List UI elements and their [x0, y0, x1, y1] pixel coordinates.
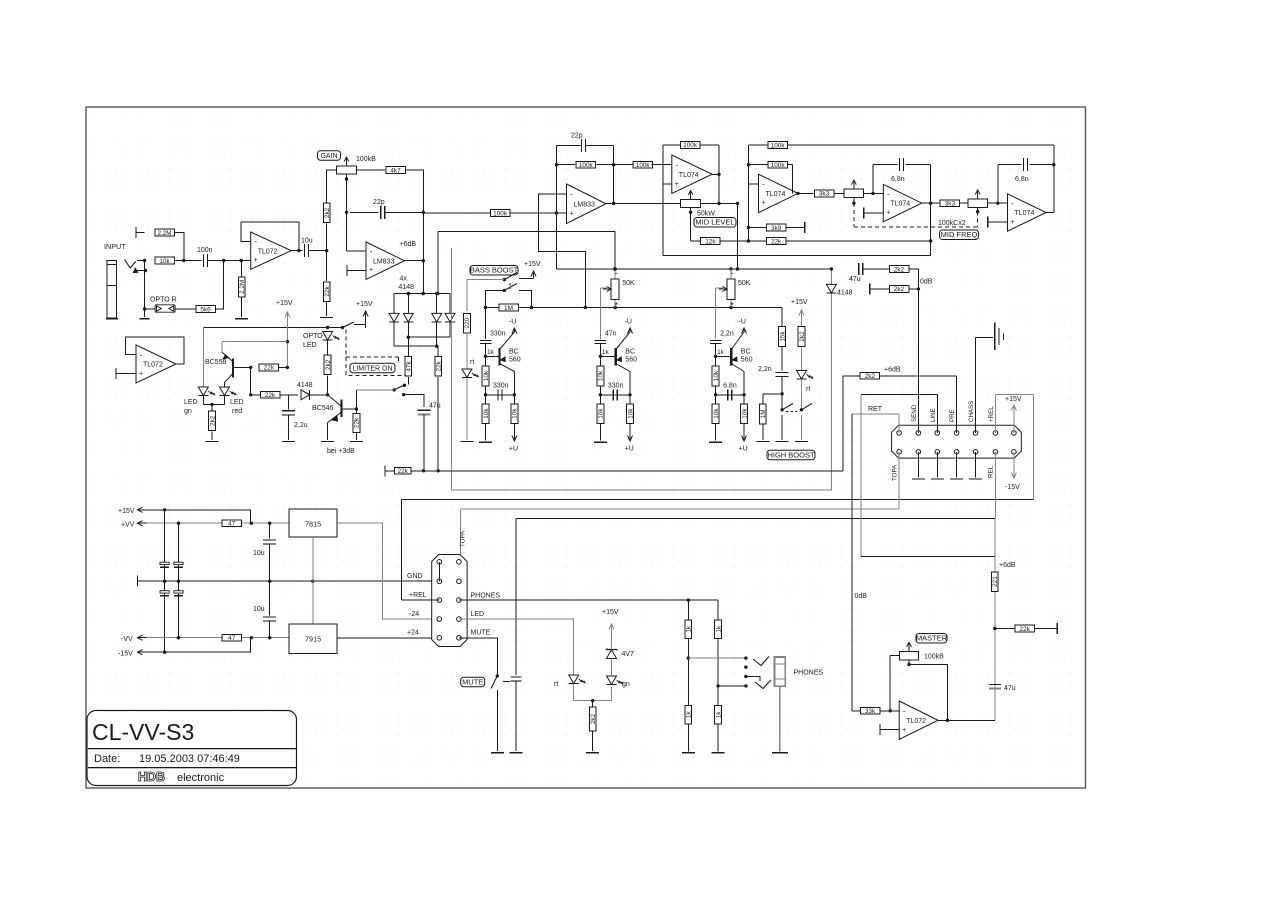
svg-text:REL: REL	[987, 465, 994, 478]
svg-text:2k2: 2k2	[894, 266, 905, 273]
svg-text:4148: 4148	[837, 290, 853, 297]
svg-text:MID FREQ: MID FREQ	[941, 230, 978, 239]
svg-text:PRE: PRE	[949, 409, 956, 422]
svg-text:1k: 1k	[715, 711, 722, 719]
svg-text:+U: +U	[625, 446, 634, 453]
svg-text:10u: 10u	[253, 606, 265, 613]
svg-text:47: 47	[228, 635, 236, 642]
svg-text:10k: 10k	[512, 408, 519, 419]
svg-text:+: +	[675, 181, 679, 188]
svg-text:-: -	[762, 180, 765, 189]
svg-text:2k2: 2k2	[324, 207, 331, 218]
svg-text:6,8n: 6,8n	[723, 382, 737, 389]
svg-text:22k: 22k	[354, 417, 361, 428]
svg-text:330n: 330n	[493, 382, 509, 389]
svg-text:47: 47	[228, 521, 236, 528]
svg-text:4V7: 4V7	[622, 651, 635, 658]
svg-text:+REL: +REL	[409, 592, 427, 599]
svg-text:4x: 4x	[400, 276, 408, 283]
svg-text:330n: 330n	[490, 331, 506, 338]
svg-text:+REL: +REL	[988, 406, 995, 422]
svg-text:47n: 47n	[605, 331, 617, 338]
svg-text:bei +3dB: bei +3dB	[327, 448, 355, 455]
svg-text:BC558: BC558	[205, 359, 227, 366]
svg-text:-: -	[675, 160, 678, 169]
svg-text:+15V: +15V	[791, 299, 808, 306]
svg-text:TOPA: TOPA	[891, 464, 898, 481]
svg-text:10k: 10k	[713, 408, 720, 419]
svg-text:MUTE: MUTE	[471, 630, 491, 637]
svg-text:22k: 22k	[398, 468, 409, 475]
svg-text:-: -	[140, 350, 143, 359]
svg-text:+15V: +15V	[118, 508, 135, 515]
svg-text:BC: BC	[509, 349, 519, 356]
svg-text:*: *	[730, 301, 734, 311]
svg-text:1k: 1k	[686, 711, 693, 719]
svg-text:10k: 10k	[483, 408, 490, 419]
svg-text:560: 560	[741, 357, 753, 364]
svg-text:OPTO R: OPTO R	[150, 297, 177, 304]
svg-text:red: red	[232, 408, 242, 415]
svg-text:+15V: +15V	[356, 301, 373, 308]
svg-text:50K: 50K	[622, 280, 635, 287]
svg-text:-15V: -15V	[1005, 484, 1020, 491]
svg-text:BC: BC	[741, 349, 751, 356]
svg-text:MUTE: MUTE	[462, 677, 483, 686]
svg-text:10k: 10k	[159, 258, 170, 265]
svg-text:0dB: 0dB	[855, 593, 868, 600]
svg-text:TL072: TL072	[906, 718, 926, 725]
svg-text:GND: GND	[407, 573, 423, 580]
svg-text:TL074: TL074	[679, 172, 699, 179]
svg-text:2,2M: 2,2M	[239, 280, 246, 294]
svg-text:gn: gn	[622, 681, 630, 688]
svg-text:7815: 7815	[305, 520, 321, 529]
svg-text:5k6: 5k6	[200, 306, 211, 313]
svg-text:1k: 1k	[602, 349, 610, 356]
svg-text:LM833: LM833	[373, 258, 395, 265]
svg-text:4148: 4148	[399, 284, 415, 291]
svg-text:221: 221	[992, 576, 999, 587]
svg-text:2k2: 2k2	[799, 331, 806, 342]
svg-text:TL074: TL074	[766, 191, 786, 198]
svg-text:+: +	[254, 257, 258, 264]
svg-text:100kB: 100kB	[924, 654, 944, 661]
svg-text:33k: 33k	[865, 708, 876, 715]
svg-text:LED: LED	[184, 399, 198, 406]
svg-text:HIGH BOOST: HIGH BOOST	[767, 450, 815, 459]
svg-text:22k: 22k	[324, 286, 331, 297]
svg-text:-24: -24	[409, 611, 419, 618]
svg-text:+6dB: +6dB	[999, 562, 1016, 569]
svg-text:+: +	[902, 727, 906, 734]
svg-text:HDB: HDB	[138, 770, 165, 784]
svg-text:10k: 10k	[741, 408, 748, 419]
svg-text:BASS BOOST: BASS BOOST	[470, 266, 519, 275]
svg-text:1k: 1k	[717, 349, 725, 356]
svg-text:100k: 100k	[636, 162, 651, 169]
svg-text:+24: +24	[407, 630, 419, 637]
svg-text:4148: 4148	[297, 382, 313, 389]
svg-text:OPTO: OPTO	[303, 333, 323, 340]
svg-text:+15V: +15V	[524, 261, 541, 268]
svg-text:CL-VV-S3: CL-VV-S3	[92, 719, 194, 745]
svg-text:GAIN: GAIN	[320, 153, 337, 160]
svg-text:4k7: 4k7	[390, 167, 401, 174]
svg-text:+: +	[886, 209, 890, 216]
svg-text:2k2: 2k2	[590, 713, 597, 724]
svg-text:-: -	[254, 237, 257, 246]
svg-text:10u: 10u	[253, 550, 265, 557]
svg-text:2.2M: 2.2M	[157, 230, 171, 237]
svg-text:100k: 100k	[771, 162, 786, 169]
svg-text:MID LEVEL: MID LEVEL	[695, 218, 734, 227]
svg-text:6,8n: 6,8n	[891, 176, 905, 183]
svg-text:22k: 22k	[264, 365, 275, 372]
svg-text:19.05.2003 07:46:49: 19.05.2003 07:46:49	[139, 753, 240, 765]
svg-text:47u: 47u	[429, 403, 441, 410]
svg-text:SEND: SEND	[911, 404, 918, 422]
svg-text:TL074: TL074	[890, 201, 910, 208]
svg-text:TL074: TL074	[1015, 210, 1035, 217]
svg-text:100k: 100k	[683, 142, 698, 149]
svg-text:100k: 100k	[579, 162, 594, 169]
svg-text:330n: 330n	[608, 382, 624, 389]
svg-text:TL072: TL072	[258, 248, 278, 255]
svg-text:LED: LED	[471, 611, 485, 618]
svg-text:*: *	[614, 301, 618, 311]
svg-text:50kW: 50kW	[697, 211, 715, 218]
svg-text:gn: gn	[184, 408, 192, 415]
svg-text:560: 560	[625, 357, 637, 364]
svg-text:+: +	[569, 211, 573, 218]
svg-text:22k: 22k	[265, 392, 276, 399]
svg-text:rt: rt	[470, 359, 474, 366]
svg-text:+15V: +15V	[602, 609, 619, 616]
svg-text:10k: 10k	[598, 370, 605, 381]
svg-text:-: -	[731, 268, 734, 278]
svg-text:LIMITER ON: LIMITER ON	[352, 365, 392, 372]
svg-text:-U: -U	[625, 319, 632, 326]
svg-text:560: 560	[509, 357, 521, 364]
svg-text:INPUT: INPUT	[104, 242, 126, 251]
svg-text:-: -	[1011, 199, 1014, 208]
svg-text:1k: 1k	[487, 349, 495, 356]
svg-text:BC546: BC546	[312, 405, 334, 412]
svg-text:47k: 47k	[406, 360, 413, 371]
svg-text:15k: 15k	[779, 331, 786, 342]
svg-text:Date:: Date:	[94, 753, 120, 765]
svg-text:RET: RET	[868, 406, 883, 413]
svg-text:PHONES: PHONES	[471, 593, 501, 600]
svg-text:3k3: 3k3	[819, 191, 830, 198]
svg-text:+6dB: +6dB	[884, 367, 901, 374]
svg-text:100kCx2: 100kCx2	[938, 220, 966, 227]
svg-text:rt: rt	[806, 386, 810, 393]
svg-text:BC: BC	[625, 349, 635, 356]
svg-text:+: +	[1010, 219, 1014, 226]
svg-text:2,2n: 2,2n	[758, 366, 772, 373]
svg-text:100k: 100k	[771, 142, 786, 149]
svg-text:47u: 47u	[1004, 685, 1016, 692]
svg-text:LINE: LINE	[930, 408, 937, 422]
svg-text:2,2n: 2,2n	[720, 331, 734, 338]
svg-text:22p: 22p	[373, 199, 385, 206]
svg-text:7915: 7915	[305, 635, 321, 644]
svg-text:3k9: 3k9	[771, 225, 782, 232]
svg-text:MASTER: MASTER	[916, 634, 948, 643]
svg-text:+U: +U	[739, 446, 748, 453]
svg-text:rt: rt	[554, 681, 558, 688]
svg-text:LED: LED	[230, 399, 244, 406]
svg-text:100k: 100k	[493, 210, 508, 217]
svg-text:-U: -U	[739, 319, 746, 326]
svg-text:-15V: -15V	[118, 651, 133, 658]
svg-text:PHONES: PHONES	[794, 670, 824, 677]
svg-text:TOPA: TOPA	[460, 530, 467, 547]
svg-text:1k: 1k	[715, 625, 722, 633]
svg-text:2k2: 2k2	[325, 359, 332, 370]
svg-text:LM833: LM833	[574, 201, 596, 208]
svg-text:22p: 22p	[571, 133, 583, 140]
svg-text:-: -	[570, 190, 573, 199]
svg-text:+VV: +VV	[121, 522, 135, 529]
svg-text:2,2u: 2,2u	[294, 422, 308, 429]
svg-text:100n: 100n	[197, 247, 213, 254]
svg-text:TL072: TL072	[143, 362, 163, 369]
svg-text:1k: 1k	[686, 625, 693, 633]
svg-text:2k2: 2k2	[209, 415, 216, 426]
svg-text:2k2: 2k2	[894, 286, 905, 293]
svg-text:+15V: +15V	[276, 300, 293, 307]
svg-text:50K: 50K	[738, 280, 751, 287]
svg-text:220: 220	[464, 317, 471, 328]
svg-text:1M: 1M	[504, 305, 513, 312]
svg-text:22k: 22k	[771, 238, 782, 245]
svg-text:2k2: 2k2	[865, 373, 876, 380]
svg-text:+: +	[369, 267, 373, 274]
svg-text:10k: 10k	[627, 408, 634, 419]
svg-text:10k: 10k	[483, 370, 490, 381]
svg-text:+: +	[139, 371, 143, 378]
svg-text:12k: 12k	[705, 238, 716, 245]
svg-text:100kB: 100kB	[356, 156, 376, 163]
svg-text:+15V: +15V	[1005, 396, 1022, 403]
svg-text:22k: 22k	[1020, 626, 1031, 633]
svg-text:-: -	[903, 706, 906, 715]
svg-text:+U: +U	[509, 446, 518, 453]
svg-text:10u: 10u	[301, 238, 313, 245]
svg-text:LED: LED	[303, 342, 317, 349]
svg-text:22k: 22k	[436, 360, 443, 371]
svg-text:-: -	[887, 189, 890, 198]
svg-text:+6dB: +6dB	[400, 241, 417, 248]
svg-text:6,8n: 6,8n	[1015, 176, 1029, 183]
svg-text:-VV: -VV	[121, 636, 133, 643]
svg-text:electronic: electronic	[177, 772, 225, 784]
svg-text:-U: -U	[509, 319, 516, 326]
svg-text:+: +	[761, 200, 765, 207]
svg-text:-: -	[370, 247, 373, 256]
svg-text:0dB: 0dB	[920, 279, 933, 286]
svg-text:47u: 47u	[849, 276, 861, 283]
svg-text:3k3: 3k3	[945, 201, 956, 208]
svg-text:10k: 10k	[713, 370, 720, 381]
svg-text:1M: 1M	[760, 409, 767, 418]
svg-text:10k: 10k	[598, 408, 605, 419]
svg-text:CHASS: CHASS	[968, 401, 975, 422]
